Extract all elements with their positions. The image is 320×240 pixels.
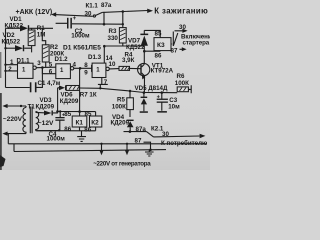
svg-text:3,9К: 3,9К [122, 57, 135, 64]
svg-text:6: 6 [49, 69, 53, 76]
svg-text:D1.3: D1.3 [88, 54, 102, 61]
svg-text:8: 8 [84, 62, 88, 69]
svg-text:1000м: 1000м [47, 136, 66, 143]
svg-text:3: 3 [37, 60, 41, 67]
svg-text:85: 85 [64, 111, 71, 118]
svg-text:КД209: КД209 [36, 104, 55, 111]
svg-text:7: 7 [104, 79, 108, 86]
svg-text:85: 85 [85, 111, 92, 118]
svg-text:4: 4 [73, 62, 77, 69]
svg-text:86: 86 [64, 126, 71, 133]
svg-text:КД522: КД522 [2, 39, 21, 46]
svg-text:К1.1: К1.1 [86, 3, 99, 10]
svg-text:КД209: КД209 [60, 98, 79, 105]
svg-text:D1.2: D1.2 [55, 56, 69, 63]
svg-text:С1 4,7м: С1 4,7м [38, 80, 61, 87]
svg-text:~220V от генератора: ~220V от генератора [93, 161, 151, 168]
svg-text:100К: 100К [175, 80, 189, 87]
svg-text:D1 К561ЛЕ5: D1 К561ЛЕ5 [63, 44, 101, 51]
svg-text:~12V: ~12V [38, 120, 54, 127]
svg-text:87: 87 [171, 47, 178, 54]
svg-text:30: 30 [85, 11, 92, 18]
svg-text:К2: К2 [91, 120, 99, 127]
svg-text:Т1: Т1 [28, 104, 36, 111]
svg-text:VD5 Д814Д: VD5 Д814Д [135, 85, 168, 92]
svg-text:30: 30 [179, 24, 186, 31]
svg-text:К1: К1 [76, 120, 84, 127]
svg-text:К зажиганию: К зажиганию [154, 7, 208, 16]
svg-text:+АКК (12V): +АКК (12V) [16, 9, 53, 16]
svg-text:100К: 100К [112, 104, 126, 111]
svg-text:330: 330 [108, 35, 119, 42]
svg-text:10м: 10м [168, 104, 180, 111]
svg-text:1000м: 1000м [71, 33, 90, 40]
svg-text:87а: 87а [136, 126, 147, 133]
svg-text:14: 14 [106, 55, 113, 62]
svg-text:КТ972А: КТ972А [151, 68, 174, 75]
svg-text:К3: К3 [157, 42, 165, 49]
svg-text:VD3: VD3 [40, 97, 53, 104]
svg-text:5: 5 [49, 61, 53, 68]
svg-text:2: 2 [8, 66, 12, 73]
svg-text:85: 85 [155, 30, 162, 37]
svg-text:R5: R5 [117, 97, 125, 104]
svg-text:86: 86 [155, 53, 162, 60]
svg-text:R3: R3 [109, 28, 117, 35]
svg-text:~220V: ~220V [3, 116, 23, 123]
svg-text:10: 10 [109, 61, 116, 68]
svg-text:1М: 1М [37, 32, 46, 39]
svg-text:87а: 87а [101, 2, 112, 9]
svg-text:R7 1К: R7 1К [80, 91, 97, 98]
svg-text:86: 86 [84, 127, 91, 134]
svg-text:+: + [73, 16, 77, 22]
svg-text:9: 9 [84, 69, 88, 76]
svg-text:стартера: стартера [183, 40, 210, 47]
